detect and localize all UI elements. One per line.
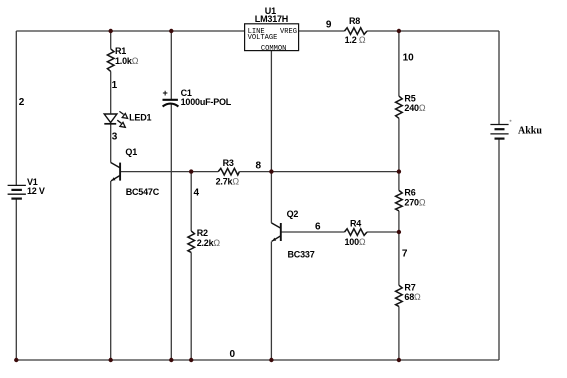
Q1 emitter arrow: [112, 177, 116, 180]
transistor Q2: [271, 223, 280, 241]
wire right rail upper (to Akku): [498, 31, 500, 125]
wire left rail lower: [15, 199, 17, 360]
svg-text:8: 8: [256, 160, 262, 171]
resistor R1: [107, 49, 114, 72]
svg-text:1.0kΩ: 1.0kΩ: [115, 56, 139, 66]
node dot top right column: [397, 29, 401, 33]
transistor Q1: [111, 163, 120, 181]
wire node4 R2 branch: [190, 172, 192, 231]
svg-text:LED1: LED1: [129, 113, 151, 123]
resistor R6: [396, 190, 403, 211]
wire Q2 base to R4: [281, 231, 344, 233]
wire R6 to R7: [398, 211, 400, 285]
svg-text:COMMON: COMMON: [261, 45, 287, 53]
node dot top C1: [169, 29, 173, 33]
op-amp U1 box: [245, 24, 299, 51]
wire top rail right (U1 out to R8): [299, 30, 345, 32]
node dot node8 common: [269, 169, 273, 173]
capacitor C1: [163, 100, 179, 107]
node dot bottom Q1: [109, 358, 113, 362]
wire R7 to bottom rail: [398, 306, 400, 360]
svg-text:VREG: VREG: [280, 28, 297, 36]
node dot node8 right: [397, 169, 401, 173]
node dot bottom Q2: [269, 358, 273, 362]
node dot bottom R2: [189, 358, 193, 362]
LED1 light arrow 1: [119, 111, 127, 118]
wire bottom rail: [16, 359, 499, 361]
resistor R3: [218, 168, 239, 175]
wire R8 to top-right corner: [367, 30, 499, 32]
svg-text:Akku: Akku: [518, 125, 542, 136]
svg-text:LM317H: LM317H: [255, 14, 288, 24]
svg-text:R6: R6: [404, 188, 415, 198]
svg-text:BC547C: BC547C: [126, 187, 160, 197]
wire Q1 base to R3: [121, 171, 219, 173]
Q2 emitter arrow: [272, 238, 276, 241]
svg-text:7: 7: [402, 249, 408, 260]
node dot bottom C1: [169, 358, 173, 362]
wire right rail lower (Akku to bottom): [498, 139, 500, 360]
wire U1 common down to Q2 collector: [270, 51, 272, 223]
node dot node7: [397, 230, 401, 234]
wire Q2 emitter down: [270, 242, 272, 361]
node dot node4: [189, 169, 193, 173]
resistor R2: [188, 231, 195, 252]
svg-text:10: 10: [403, 52, 415, 63]
resistor R5: [396, 96, 403, 118]
wire node8 R3 to right column: [239, 171, 399, 173]
svg-text:240Ω: 240Ω: [404, 103, 425, 113]
svg-text:100Ω: 100Ω: [345, 237, 366, 247]
svg-text:6: 6: [315, 222, 321, 233]
LED LED1: [104, 114, 117, 124]
wire R2 to bottom rail: [190, 252, 192, 360]
svg-text:R5: R5: [404, 93, 415, 103]
svg-text:12 V: 12 V: [27, 186, 45, 196]
wire C1 branch top: [170, 31, 172, 99]
svg-text:R1: R1: [115, 46, 126, 56]
wire R1 to LED: [110, 71, 112, 113]
node dot bottom left corner: [14, 358, 18, 362]
wire LED to Q1 collector: [110, 124, 112, 162]
svg-text:R2: R2: [197, 228, 208, 238]
svg-text:R3: R3: [223, 158, 234, 168]
svg-text:270Ω: 270Ω: [404, 197, 425, 207]
svg-text:Q1: Q1: [125, 147, 137, 157]
LED1 light arrow 2: [117, 120, 125, 127]
svg-text:68Ω: 68Ω: [404, 292, 421, 302]
svg-text:VOLTAGE: VOLTAGE: [248, 34, 278, 42]
resistor R7: [396, 285, 403, 306]
battery V1: [8, 185, 26, 198]
wire Q1 emitter down: [110, 181, 112, 360]
svg-text:R7: R7: [404, 282, 415, 292]
wire left rail upper: [15, 31, 17, 185]
svg-text:Q2: Q2: [287, 209, 299, 219]
wire top rail left: [16, 30, 244, 32]
svg-text:BC337: BC337: [288, 250, 315, 260]
svg-text:R4: R4: [350, 219, 361, 229]
svg-text:3: 3: [112, 131, 118, 142]
svg-text:2.2kΩ: 2.2kΩ: [197, 238, 221, 248]
svg-text:1: 1: [112, 80, 118, 91]
svg-text:2: 2: [19, 97, 25, 108]
wire R5 to R6: [398, 118, 400, 190]
svg-text:1.2 Ω: 1.2 Ω: [345, 35, 366, 45]
battery Akku: [490, 125, 508, 139]
resistor R8: [345, 28, 368, 35]
resistor R4: [345, 229, 368, 236]
wire right column node10: [398, 31, 400, 96]
svg-text:R8: R8: [349, 16, 360, 26]
svg-text:4: 4: [194, 188, 200, 199]
node dot bottom R7: [397, 358, 401, 362]
wire C1 branch bottom: [170, 104, 172, 360]
node dot top R1: [109, 29, 113, 33]
wire node6 R4 to right column: [367, 231, 399, 233]
wire R1 branch top: [110, 31, 112, 49]
svg-text:9: 9: [326, 19, 332, 30]
svg-text:1000uF-POL: 1000uF-POL: [181, 97, 232, 107]
svg-text:0: 0: [230, 349, 236, 360]
faint mark near Akku plus: [510, 120, 512, 122]
svg-text:+: +: [163, 88, 168, 98]
svg-text:2.7kΩ: 2.7kΩ: [216, 177, 240, 187]
